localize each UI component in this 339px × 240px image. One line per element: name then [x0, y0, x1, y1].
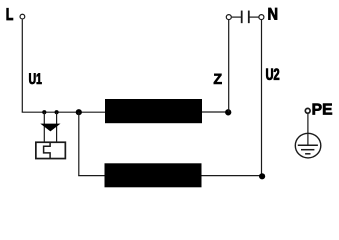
connector terminal N — [259, 15, 264, 20]
wire N down — [261, 20, 263, 176]
wire L down — [21, 20, 23, 113]
thermal release arrow — [40, 124, 60, 132]
label N — [268, 8, 277, 20]
protective earth circle — [295, 133, 321, 158]
node Z junction — [225, 109, 231, 115]
wire branch down — [78, 112, 80, 175]
label Z — [214, 74, 222, 84]
node tap 2 — [55, 110, 59, 114]
node N bottom junction — [259, 173, 265, 179]
earth bar medium — [301, 149, 314, 151]
wire R2 to node N — [202, 175, 262, 177]
wire capacitor to N — [249, 16, 259, 18]
wire Z up — [228, 20, 230, 113]
wire R1 to node Z — [202, 111, 228, 113]
capacitor plate right — [248, 11, 250, 24]
node tap 1 — [42, 110, 46, 114]
terminal PE — [305, 108, 310, 113]
wire to capacitor — [232, 16, 242, 18]
thermal cutout contact symbol — [44, 142, 51, 159]
earth bar long — [298, 144, 318, 146]
wire PE down — [307, 114, 309, 145]
wire branch to R2 — [78, 175, 105, 177]
thermal cutout box — [36, 142, 66, 158]
label PE — [313, 104, 332, 115]
wire main horizontal — [22, 111, 106, 113]
heating element R1 — [105, 99, 202, 123]
label U2 — [266, 68, 279, 80]
label L — [7, 8, 13, 20]
heating element R2 — [105, 163, 202, 187]
node junction to R2 branch — [76, 109, 82, 115]
wire tap2 down — [56, 112, 58, 142]
capacitor plate left — [241, 11, 243, 24]
connector terminal left — [226, 15, 231, 20]
terminal L — [20, 14, 25, 19]
wire tap1 down — [43, 112, 45, 142]
label U1 — [29, 73, 41, 84]
earth bar short — [305, 153, 310, 155]
